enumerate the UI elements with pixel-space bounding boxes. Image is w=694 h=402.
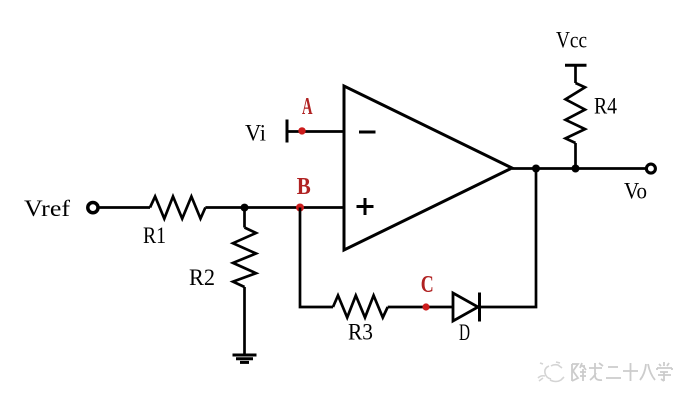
svg-text:A: A xyxy=(302,94,313,120)
resistor R4 xyxy=(566,83,586,143)
diode D xyxy=(453,293,480,322)
svg-text:Vcc: Vcc xyxy=(556,28,587,53)
char 掌 xyxy=(657,362,672,381)
svg-text:R4: R4 xyxy=(594,94,617,119)
svg-text:C: C xyxy=(421,272,434,298)
svg-text:R3: R3 xyxy=(348,320,373,345)
wire R1 to op-amp plus input xyxy=(205,206,344,209)
op-amp plus sign xyxy=(357,198,374,215)
resistor R2 xyxy=(233,228,256,288)
wire Vi input xyxy=(287,120,344,143)
terminal Vref xyxy=(88,203,98,213)
terminal Vcc bar xyxy=(565,64,587,67)
char 十 xyxy=(623,363,638,381)
terminal Vo xyxy=(646,164,655,173)
svg-text:Vi: Vi xyxy=(245,121,266,146)
wire R2 to ground xyxy=(243,287,246,355)
junction feedback xyxy=(532,165,540,173)
svg-text:B: B xyxy=(297,174,311,200)
wire output xyxy=(512,167,646,170)
wire junction to R2 xyxy=(243,208,246,228)
junction R1 R2 xyxy=(241,204,249,212)
node C xyxy=(422,303,429,310)
resistor R3 xyxy=(333,296,388,318)
svg-text:Vref: Vref xyxy=(24,196,70,221)
resistor R1 xyxy=(150,197,205,219)
char 八 xyxy=(640,364,655,380)
node B xyxy=(296,204,304,212)
node A xyxy=(298,127,305,134)
wire Vcc to R4 xyxy=(574,65,577,83)
wire node B down to feedback xyxy=(300,208,333,308)
char 二 xyxy=(606,367,621,378)
wire Vref to R1 xyxy=(99,206,150,209)
watermark logo xyxy=(538,362,564,382)
ground xyxy=(233,355,257,362)
svg-text:R2: R2 xyxy=(189,265,215,290)
svg-text:D: D xyxy=(459,320,470,345)
svg-text:R1: R1 xyxy=(143,223,166,248)
svg-text:Vo: Vo xyxy=(624,179,647,204)
junction R4 xyxy=(572,165,580,173)
wire R4 to output xyxy=(574,143,577,169)
char 降 xyxy=(572,363,586,381)
watermark text 降龙二十八掌 xyxy=(572,362,672,381)
op-amp minus sign xyxy=(359,131,376,134)
op-amp U1 xyxy=(344,86,512,250)
wire diode to feedback corner xyxy=(480,169,537,308)
char 龙 xyxy=(589,363,603,380)
wire R3 to diode xyxy=(388,306,453,309)
